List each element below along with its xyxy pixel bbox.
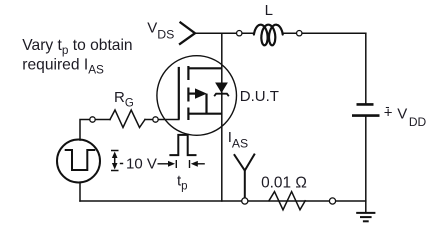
svg-text:+: +	[384, 105, 393, 122]
svg-text:10 V: 10 V	[126, 156, 157, 173]
svg-text:0.01 Ω: 0.01 Ω	[261, 174, 307, 191]
svg-text:D.U.T: D.U.T	[240, 88, 279, 105]
svg-text:L: L	[265, 2, 273, 19]
